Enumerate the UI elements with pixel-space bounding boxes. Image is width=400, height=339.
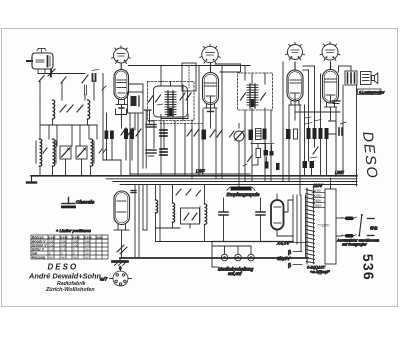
trimmer arrows a2: [136, 129, 141, 136]
riser bundle: [293, 195, 306, 258]
capacitor C6: [339, 122, 346, 135]
grid leak resistors bank: [307, 128, 329, 139]
coupling cap bars C21: [124, 129, 134, 140]
wires to ground bus: [40, 159, 91, 176]
capacitor C12: [202, 130, 207, 140]
main supply bus 2 thick: [106, 178, 357, 180]
variable capacitor C5 box: [76, 146, 87, 159]
chassis symbol: [61, 198, 76, 209]
wires left tube zone: [103, 74, 135, 176]
main supply bus 1: [130, 173, 250, 175]
chassis mark V4: [332, 95, 340, 104]
mains dropper hatch bar: [306, 188, 315, 264]
IF dashed box between V2 V3: [238, 73, 273, 110]
svg-text:β: β: [288, 250, 291, 256]
oscillator coil L6 windings: [165, 91, 176, 116]
choke L9: [156, 200, 158, 213]
svg-text:auf Gangregler: auf Gangregler: [342, 242, 367, 246]
capacitor bank C7: [303, 161, 315, 168]
wire V1 anode loop: [129, 84, 144, 92]
svg-text:β: β: [288, 263, 291, 269]
detector coil small: [276, 163, 280, 170]
V1 base legs: [116, 100, 127, 109]
tone box: [181, 208, 200, 224]
svg-text:110V: 110V: [313, 189, 322, 193]
svg-text:506: 506: [96, 235, 101, 239]
svg-text:Chassis: Chassis: [76, 200, 95, 206]
wire right edge: [330, 179, 332, 190]
variable capacitor C4 box: [60, 146, 71, 159]
trimmer arrows: [210, 130, 222, 137]
capacitor C18: [256, 198, 265, 242]
grid coupling box G: [182, 63, 196, 91]
wire socket to grid bus: [129, 65, 251, 67]
oscillator inner frame: [154, 86, 188, 117]
wire right of oscillator: [183, 85, 192, 124]
bus riser x300: [299, 185, 301, 196]
svg-text:145V: 145V: [313, 199, 322, 203]
ground symbol: [27, 176, 36, 183]
capacitor C8: [146, 121, 156, 127]
svg-text:6.Lautsprecher: 6.Lautsprecher: [359, 90, 385, 94]
detector cap C15: [265, 162, 269, 169]
L3 label: [35, 141, 37, 164]
capacitor C9: [160, 130, 167, 136]
tube socket V4 top view: [320, 42, 340, 60]
U loop below V1: [116, 109, 127, 115]
mains selector box: [312, 189, 336, 264]
coil L5: [91, 139, 93, 166]
volume potentiometer P1: [234, 124, 244, 187]
label Gang-Ca: [262, 143, 274, 145]
detector resistor R1: [256, 149, 261, 158]
L7 core dark: [251, 99, 254, 107]
trimmer arrows mid: [187, 129, 199, 136]
capacitor C11: [160, 149, 167, 155]
wire oscillator top: [161, 66, 171, 87]
wire verticals left bank: [40, 100, 97, 146]
long vertical wires tubes to buses: [130, 62, 343, 185]
detector cap C14: [264, 150, 269, 156]
value 40: [157, 104, 163, 105]
svg-text:Zürich-Wollishofen: Zürich-Wollishofen: [45, 287, 95, 293]
switch S2: [39, 76, 44, 82]
detector arrow: [248, 155, 253, 162]
wire antenna bus: [38, 73, 85, 75]
switch arrows below bus: [176, 189, 201, 196]
L11 label: [199, 206, 201, 223]
svg-text:0-B(1)10T: 0-B(1)10T: [307, 265, 326, 270]
switch S3: [61, 77, 66, 83]
output transformer T3: [345, 71, 357, 85]
choke L11: [205, 204, 207, 224]
phone terminals: [212, 242, 254, 268]
label n mark: [102, 86, 106, 90]
L5 label: [93, 141, 95, 164]
main low bus: [120, 257, 308, 259]
svg-text:6Hz: 6Hz: [370, 226, 378, 231]
wires mid bottom: [135, 185, 212, 259]
plug lead: [27, 60, 32, 62]
V3 base: [289, 93, 301, 120]
A1 internal label 6008: [36, 56, 50, 67]
wire left vertical: [39, 81, 41, 100]
tube data table: [31, 235, 108, 259]
trimmer C1 with arrow: [82, 74, 96, 83]
wire frame left coils: [40, 119, 97, 125]
wire trimmer down: [93, 81, 95, 100]
tube socket V2 top view: [200, 44, 220, 63]
coil L3: [40, 139, 42, 166]
trimmer arrow: [313, 147, 318, 154]
tube socket V3 top view: [286, 42, 305, 60]
value label mw: [92, 70, 99, 71]
wires right section verticals: [305, 66, 331, 176]
tube V1 envelope E447: [114, 64, 129, 100]
svg-text:125V: 125V: [313, 194, 322, 198]
svg-text:Empfangsspule: Empfangsspule: [227, 192, 260, 198]
svg-text:110V: 110V: [313, 183, 324, 188]
svg-text:auf,auf: auf,auf: [228, 271, 242, 276]
cap mf small: [131, 191, 136, 193]
switch arrow: [43, 148, 47, 153]
coil L4: [53, 139, 55, 166]
cap C20: [145, 110, 152, 123]
tube V4 envelope: [323, 62, 339, 103]
trimmer C2: [60, 105, 73, 112]
beta marks: [288, 250, 302, 269]
table header data: [48, 235, 101, 259]
capacitor C22: [263, 129, 267, 140]
IF can T1: [128, 92, 144, 113]
labels above resistors: [305, 117, 321, 124]
tube base bottom view: [110, 266, 132, 287]
label box Lautsprecher: [358, 89, 382, 95]
switch S1 with capacitor: [48, 69, 55, 77]
filter capacitors DK: [336, 214, 374, 238]
table row labels: [31, 235, 47, 259]
IF coil L7 windings: [247, 84, 258, 108]
capacitor C10: [146, 150, 156, 156]
wire A1 to bus: [38, 69, 45, 74]
wire V4 anode to transformer: [339, 66, 352, 72]
antenna coupler A1 box: [32, 53, 53, 69]
coil L8 hatched: [256, 129, 262, 140]
switch marks: [99, 149, 106, 153]
svg-text:+ω-2(2)ωμF: +ω-2(2)ωμF: [310, 270, 330, 274]
wire IF top: [245, 66, 265, 85]
loudspeaker symbol: [372, 73, 378, 84]
svg-text:André Dewald+Sohn: André Dewald+Sohn: [28, 272, 102, 281]
L4 label: [55, 141, 57, 164]
label 8,5MF: [310, 157, 317, 158]
capacitor C17: [219, 198, 228, 242]
wire speaker down: [295, 85, 357, 186]
ground symbol bottom: [113, 258, 128, 266]
svg-text:536: 536: [360, 254, 377, 282]
tube V3 envelope: [287, 62, 303, 101]
svg-text:LWF: LWF: [335, 170, 344, 175]
V4 base: [325, 95, 337, 107]
svg-text:155V: 155V: [313, 204, 322, 208]
svg-text:Heizung: Heizung: [32, 255, 46, 259]
svg-text:LWF: LWF: [196, 169, 205, 174]
svg-text:7=110V: 7=110V: [317, 224, 330, 228]
coil L1: [53, 100, 55, 119]
small arrows before pot: [230, 131, 235, 137]
voltage labels: [313, 189, 330, 228]
svg-text:+ Limiter positionen: + Limiter positionen: [56, 228, 92, 233]
detector resistor R3: [270, 151, 274, 156]
trimmer arrows in oscillator: [149, 95, 161, 102]
V2 base: [204, 96, 217, 128]
tube socket V1 top view: [112, 46, 131, 64]
supply bus to rectifier: [212, 241, 293, 243]
trimmer arrows a1: [121, 128, 133, 135]
bypass loop wire: [329, 121, 337, 134]
svg-text:8l2,5V: 8l2,5V: [277, 256, 291, 261]
ground bus: [31, 175, 357, 177]
dashed line mid: [160, 123, 202, 125]
wire: [204, 185, 206, 242]
svg-text:X4,3V: X4,3V: [276, 241, 290, 246]
can box behind V2: [215, 64, 241, 72]
antenna: [37, 49, 46, 54]
coil core dark: [169, 108, 172, 116]
trimmer arrows IF: [241, 93, 266, 100]
wire jogs above resistors: [303, 66, 315, 70]
capacitor C16: [286, 129, 291, 139]
trimmer arrows right oscillator: [180, 93, 191, 100]
svg-text:DESO: DESO: [48, 263, 79, 272]
detector wires: [251, 144, 272, 166]
coil label 6010: [85, 85, 87, 95]
rectifier tube V5: [114, 191, 130, 225]
label a1: [243, 164, 247, 166]
choke L10: [173, 203, 175, 222]
wire: [84, 95, 86, 100]
rectifier V6: [271, 194, 284, 230]
main supply bus 3: [113, 181, 357, 183]
resistor R2: [294, 129, 298, 139]
main supply bus 4: [120, 184, 357, 186]
V5 base wires: [114, 225, 129, 259]
dial lamp bar: [227, 187, 255, 191]
svg-text:ω/7: ω/7: [100, 277, 108, 282]
wire rectifier out: [277, 200, 293, 236]
wire: [61, 83, 63, 100]
speaker field coil box: [361, 72, 372, 85]
tube V2 envelope: [203, 63, 219, 105]
capacitor C13: [249, 130, 254, 141]
oscillator module dashed box: [148, 82, 195, 121]
IF transformer T2 dark bars: [105, 131, 114, 140]
bracket wire: [161, 115, 188, 119]
trimmer C3: [77, 105, 83, 112]
coil L2: [88, 100, 90, 119]
